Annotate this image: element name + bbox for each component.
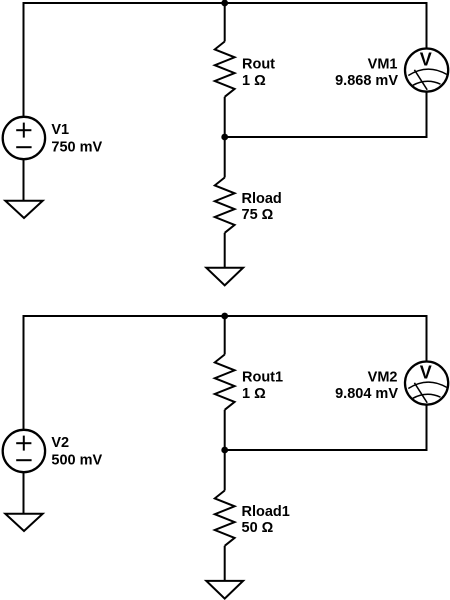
wire Rout bottom lead bbox=[224, 97, 226, 137]
junction node top rail / Rout circuit 1 bbox=[221, 0, 228, 6]
wire VM2 bottom lead bbox=[426, 405, 428, 450]
resistor Rload bbox=[215, 178, 235, 233]
voltage source V2 body bbox=[3, 430, 45, 472]
ground below V2 bbox=[5, 514, 42, 531]
ground below Rload bbox=[206, 268, 243, 286]
svg-text:9.804 mV: 9.804 mV bbox=[335, 386, 398, 402]
voltmeter VM1 body bbox=[405, 49, 448, 92]
svg-text:500 mV: 500 mV bbox=[51, 452, 102, 468]
svg-text:9.868 mV: 9.868 mV bbox=[335, 73, 398, 89]
wire bottom rail circuit 1 bbox=[225, 136, 428, 138]
wire VM1 bottom lead bbox=[426, 92, 428, 137]
svg-text:1 Ω: 1 Ω bbox=[242, 386, 266, 402]
V1 plus sign bbox=[16, 129, 31, 131]
wire Rload bottom lead bbox=[224, 233, 226, 268]
V1 minus sign bbox=[16, 146, 31, 148]
svg-text:VM1: VM1 bbox=[368, 57, 398, 73]
wire Rload1 bottom lead bbox=[224, 546, 226, 581]
ground below V1 bbox=[5, 201, 42, 218]
svg-text:V: V bbox=[420, 363, 432, 383]
resistor Rout bbox=[215, 42, 235, 97]
svg-text:V: V bbox=[420, 50, 432, 70]
V2 minus sign bbox=[16, 459, 31, 461]
wire Rload top lead bbox=[224, 137, 226, 178]
svg-text:750 mV: 750 mV bbox=[51, 139, 102, 155]
voltmeter VM2 body bbox=[405, 362, 448, 405]
junction node top rail / Rout1 circuit 2 bbox=[221, 313, 228, 320]
wire V2 bottom lead bbox=[23, 473, 25, 514]
svg-text:Rload1: Rload1 bbox=[242, 504, 290, 520]
voltmeter VM1 scale arcs and needle bbox=[408, 69, 446, 75]
junction node bottom rail / Rload1 circuit 2 bbox=[221, 447, 228, 454]
svg-text:1 Ω: 1 Ω bbox=[242, 73, 266, 89]
wire Rout1 top lead bbox=[224, 316, 226, 355]
wire V1 bottom lead bbox=[23, 160, 25, 201]
wire Rload1 top lead bbox=[224, 450, 226, 491]
wire right vertical top rail to VM2 bbox=[426, 316, 428, 361]
ground below Rload1 bbox=[206, 581, 243, 599]
wire Rout1 bottom lead bbox=[224, 410, 226, 450]
wire left vertical V2 to top rail bbox=[23, 316, 25, 429]
resistor Rout1 bbox=[215, 355, 235, 410]
svg-text:75 Ω: 75 Ω bbox=[242, 207, 274, 223]
wire top rail circuit 1 bbox=[23, 2, 428, 4]
svg-text:Rout: Rout bbox=[242, 57, 275, 73]
svg-text:VM2: VM2 bbox=[368, 370, 398, 386]
wire bottom rail circuit 2 bbox=[225, 449, 428, 451]
V2 plus sign bbox=[16, 442, 31, 444]
svg-text:Rout1: Rout1 bbox=[242, 370, 283, 386]
wire top rail circuit 2 bbox=[23, 315, 428, 317]
wire Rout top lead bbox=[224, 3, 226, 42]
wire left vertical V1 to top rail bbox=[23, 3, 25, 116]
wire right vertical top rail to VM1 bbox=[426, 3, 428, 48]
svg-text:V2: V2 bbox=[51, 435, 69, 451]
svg-text:V1: V1 bbox=[51, 122, 69, 138]
svg-text:50 Ω: 50 Ω bbox=[242, 520, 274, 536]
voltage source V1 body bbox=[3, 117, 45, 159]
resistor Rload1 bbox=[215, 491, 235, 546]
voltmeter VM2 scale arcs and needle bbox=[408, 382, 446, 388]
junction node bottom rail / Rload circuit 1 bbox=[221, 134, 228, 141]
svg-text:Rload: Rload bbox=[242, 191, 282, 207]
